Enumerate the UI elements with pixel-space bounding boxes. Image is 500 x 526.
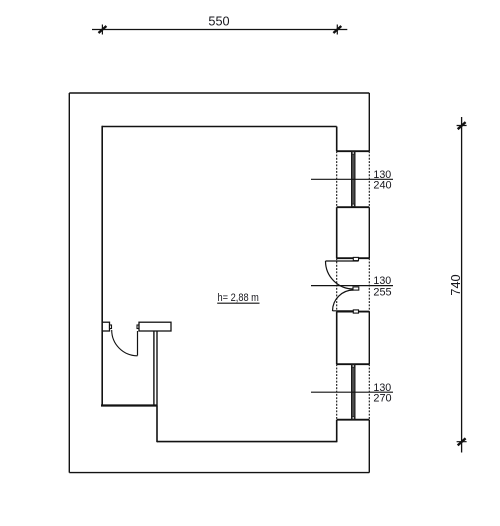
window W2 glazing bar with end caps: [352, 365, 355, 419]
svg-text:270: 270: [373, 392, 391, 404]
svg-text:130: 130: [373, 275, 391, 287]
wall: room inner face top: [102, 126, 337, 128]
leader line window W1: [311, 178, 393, 180]
wall: outer face top/left/bottom: [69, 93, 369, 473]
wall: bottom-left step vertical: [156, 406, 158, 443]
alcove door leaf: [137, 331, 139, 356]
svg-text:740: 740: [448, 274, 463, 295]
room height label underline: [217, 302, 259, 304]
wall: alcove bottom thick wall: [101, 404, 157, 406]
balcony door frame blocks: [353, 257, 359, 313]
wall: room inner face right solid segments between openings: [336, 127, 338, 443]
wall: room inner face left: [101, 126, 103, 406]
alcove door left jamb block: [102, 322, 109, 331]
leader line balcony door: [311, 285, 393, 287]
alcove partition T-wall bar: [139, 322, 171, 331]
svg-text:255: 255: [373, 286, 391, 298]
opening dashed reveal lines: [337, 151, 370, 420]
wall: outer face right solid segments between openings: [368, 93, 370, 473]
alcove partition T-wall stem: [154, 331, 157, 406]
alcove door jamb ticks: [110, 325, 140, 329]
dimension line 740 (right): [457, 117, 467, 453]
balcony door upper leaf with swing arc: [326, 261, 359, 289]
alcove door swing arc: [112, 330, 138, 356]
balcony door lower leaf with swing arc: [333, 290, 359, 311]
dimension line 550 (top): [92, 25, 347, 35]
leader line window W2: [311, 391, 393, 393]
opening reveal cut lines (windows W1, W2 and balcony door): [337, 151, 370, 420]
svg-text:240: 240: [373, 179, 391, 191]
svg-text:550: 550: [208, 14, 229, 29]
wall: room inner face bottom: [157, 441, 337, 443]
svg-text:h= 2,88 m: h= 2,88 m: [218, 292, 259, 304]
window W1 glazing bar with end caps: [352, 152, 355, 207]
